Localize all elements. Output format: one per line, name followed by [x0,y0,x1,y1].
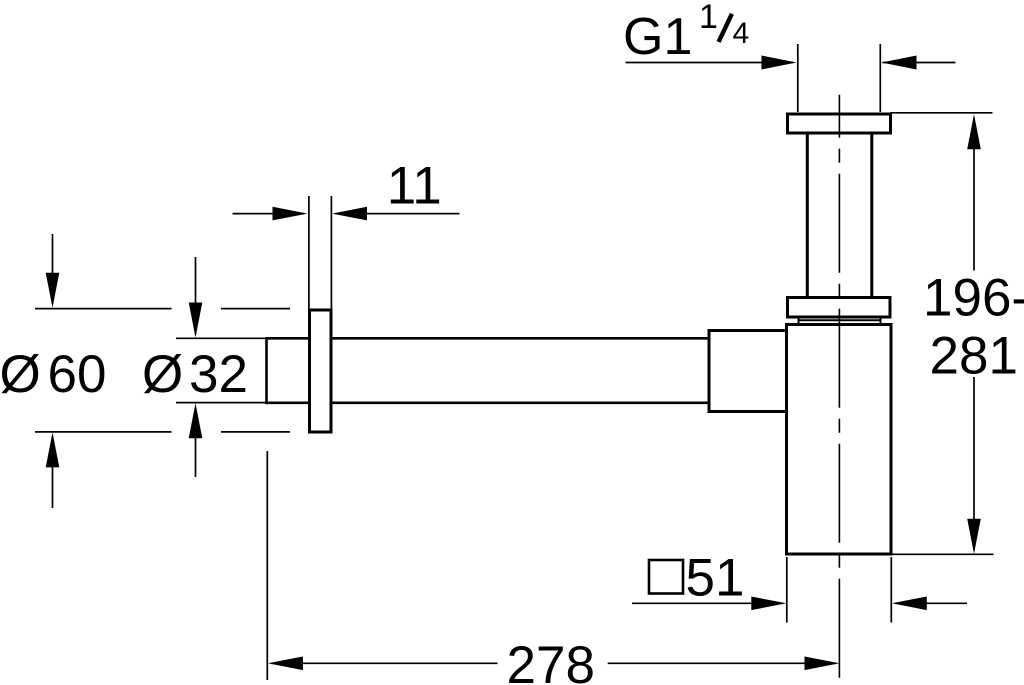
svg-text:51: 51 [686,549,745,608]
dimension square-51 lines and arrows [632,597,967,611]
dimension 11 extension lines [309,196,332,309]
dimension D60 label [0,345,106,404]
inlet sleeve [709,331,787,412]
dimension 278 line and arrows [268,657,840,671]
svg-text:11: 11 [387,157,442,216]
svg-text:Ø: Ø [0,345,41,404]
wall flange [310,310,332,432]
dimension 196-281 labels [923,269,1024,386]
top cap (G1 1/4 union nut) [788,114,891,133]
dimension 278 extension line [266,451,268,680]
body top flange [788,298,891,318]
dimension D32 arrows [189,257,203,477]
dimension 196-281 extension lines [890,113,994,555]
svg-text:G1: G1 [623,8,692,66]
svg-text:278: 278 [507,636,595,685]
svg-text:Ø: Ø [142,345,183,404]
centerline [838,95,840,679]
dimension D60 arrows [46,234,60,508]
dimension square-51 label [649,549,744,608]
dimension D60 extension lines [35,309,290,432]
trap body [787,325,892,555]
svg-text:196-: 196- [923,269,1024,328]
dimension D32 label [142,345,248,404]
dimension 278 label [507,636,595,685]
dimension D32 extension lines [176,338,268,402]
dimension 11 lines and arrows [233,207,460,221]
svg-text:281: 281 [930,327,1018,386]
svg-text:32: 32 [189,345,248,404]
vertical pipe [807,134,872,299]
svg-text:1: 1 [699,0,718,36]
dimension G1 1/4 label [623,0,749,66]
dimension square-51 extension lines [787,557,892,623]
svg-text:4: 4 [733,17,750,50]
dimension 196-281 line and arrows [967,114,981,554]
dimension 11 label [387,157,442,216]
dimension G1 1/4 extension lines [798,44,881,112]
horizontal pipe [267,337,710,404]
gasket [798,318,882,324]
svg-text:60: 60 [48,345,107,404]
dimension G1 1/4 leader and arrows [626,56,956,70]
